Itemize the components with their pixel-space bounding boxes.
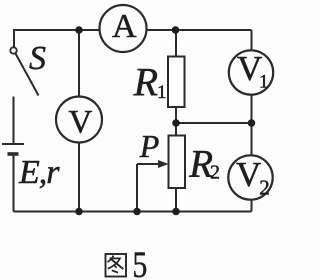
svg-text:P: P — [139, 128, 160, 164]
svg-text:R: R — [133, 59, 158, 104]
svg-text:E,r: E,r — [18, 154, 60, 191]
svg-text:V: V — [69, 104, 93, 140]
svg-text:A: A — [112, 8, 137, 45]
svg-text:S: S — [29, 40, 46, 77]
svg-text:1: 1 — [157, 82, 167, 103]
svg-text:V: V — [236, 155, 261, 194]
svg-text:2: 2 — [259, 175, 270, 199]
svg-text:5: 5 — [133, 245, 148, 280]
svg-text:2: 2 — [210, 162, 220, 184]
svg-text:1: 1 — [259, 71, 269, 92]
